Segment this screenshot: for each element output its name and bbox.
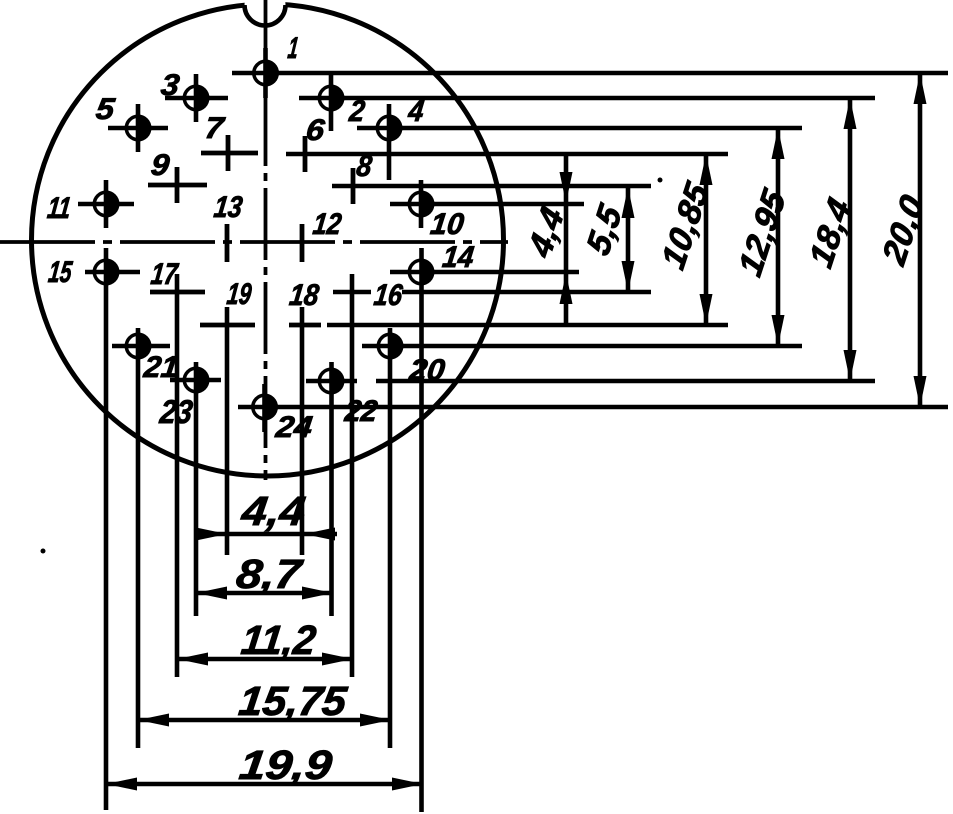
column line pin 19	[225, 307, 230, 555]
column line pin 22	[329, 362, 334, 616]
row 8/9 extension line	[332, 184, 651, 189]
dimension 15,75 (bottom, cols 21-20)	[138, 714, 391, 727]
row 6/7 extension line	[286, 152, 728, 157]
stray dot	[41, 549, 46, 554]
pin 13 (cross)	[225, 224, 230, 262]
pin 24 crosshair arms	[262, 384, 267, 432]
pin 23 crosshair arms	[170, 378, 221, 383]
pin 8 (cross)	[351, 168, 356, 204]
pin 5 (filled contact)	[126, 115, 151, 142]
pin 1 crosshair arms	[263, 48, 268, 98]
pin 21 (filled contact)	[126, 333, 151, 360]
svg-text:22: 22	[342, 395, 379, 428]
pin 5 crosshair arms	[108, 104, 168, 152]
svg-text:4,4: 4,4	[238, 488, 308, 534]
pin 12 (cross)	[300, 224, 305, 262]
pin 23 (filled contact)	[184, 367, 209, 394]
pin 14 (filled contact)	[409, 259, 434, 286]
pin 18 (cross)	[289, 323, 321, 328]
row 14/15 extension line	[390, 270, 579, 275]
dimension 10,85 (right)	[700, 154, 713, 325]
column line pin 23	[194, 362, 199, 616]
svg-text:11: 11	[46, 192, 73, 225]
svg-text:24: 24	[273, 411, 314, 444]
connector body circle	[32, 4, 504, 476]
pin 24 (filled contact)	[253, 394, 278, 421]
svg-text:15,75: 15,75	[236, 678, 350, 724]
stray dot	[658, 178, 663, 183]
pin 21 crosshair arms	[112, 344, 170, 349]
pin 10 crosshair arms	[419, 180, 424, 228]
row 20/21 extension line	[362, 344, 802, 349]
row 24 extension line	[238, 405, 948, 410]
pin 11 (filled contact)	[94, 191, 119, 218]
row 1 extension line	[232, 71, 948, 76]
svg-text:14: 14	[441, 241, 476, 274]
row 10/11 extension line	[390, 202, 584, 207]
dimension 12,95 (right)	[772, 128, 785, 346]
dimension 19,9 (bottom, cols 15-14)	[106, 778, 423, 791]
pin 3 (filled contact)	[184, 85, 209, 112]
pin 15 (filled contact)	[94, 259, 119, 286]
vertical centerline (axis)	[264, 0, 268, 480]
svg-text:19: 19	[225, 278, 253, 311]
dimension 5,5 (right, rows 8-16)	[622, 187, 635, 292]
pin 3 crosshair arms	[165, 74, 228, 122]
pin 22 crosshair arms	[306, 379, 357, 384]
svg-text:21: 21	[141, 351, 180, 384]
svg-text:12: 12	[311, 208, 343, 241]
pin 7 (cross)	[201, 135, 258, 171]
column line pin 20	[388, 328, 393, 748]
column line pin 17	[175, 274, 180, 677]
horizontal centerline	[0, 240, 508, 244]
pin 9 (cross)	[148, 167, 207, 203]
row 18/19 extension line	[327, 323, 728, 328]
svg-text:10: 10	[429, 208, 466, 241]
svg-text:17: 17	[149, 258, 180, 291]
svg-text:18: 18	[288, 279, 321, 312]
svg-text:19,9: 19,9	[237, 742, 335, 788]
column line pin 21	[136, 328, 141, 748]
dimension 20,0 (right)	[914, 73, 927, 407]
pin 6 (cross)	[303, 136, 308, 172]
row 4/5 extension line	[357, 126, 802, 131]
pin 11 crosshair arms	[78, 180, 134, 228]
row 16/17 extension line	[333, 290, 651, 295]
row 22/23 extension line	[376, 379, 875, 384]
pin 22 (filled contact)	[319, 368, 344, 395]
pin 1 (filled contact)	[254, 60, 279, 87]
pin 2 (filled contact)	[319, 85, 344, 112]
svg-text:13: 13	[212, 191, 244, 224]
svg-text:11,2: 11,2	[239, 617, 319, 663]
pin 4 (filled contact)	[377, 115, 402, 142]
column line pin 15	[104, 248, 109, 810]
column line pin 14	[419, 248, 424, 812]
pin 4 crosshair arms	[387, 104, 392, 180]
pin 10 (filled contact)	[409, 191, 434, 218]
column line pin 16	[350, 274, 355, 677]
dimension 4,4 (right, rows 10-14)	[560, 154, 573, 323]
keyway notch	[245, 0, 286, 26]
svg-text:16: 16	[372, 279, 404, 312]
pin 15 crosshair arms	[85, 270, 140, 275]
dimension 4,4 (bottom, cols 19-18)	[196, 528, 337, 541]
dimension 11,2 (bottom, cols 17-16)	[177, 653, 353, 666]
pin 20 (filled contact)	[378, 333, 403, 360]
svg-text:8,7: 8,7	[234, 551, 306, 597]
dimension 8,7 (bottom, cols 23-22)	[196, 587, 333, 600]
svg-text:20: 20	[407, 354, 447, 387]
svg-text:23: 23	[157, 394, 195, 431]
pin 19 (cross)	[200, 323, 255, 328]
pin 17 (cross)	[150, 290, 205, 295]
dimension 18,4 (right)	[844, 98, 857, 381]
column line pin 18	[300, 307, 305, 555]
pin 2 crosshair arms	[329, 75, 334, 131]
pin 16 (cross)	[0, 0, 1, 1]
row 2/3 extension line	[299, 96, 875, 101]
